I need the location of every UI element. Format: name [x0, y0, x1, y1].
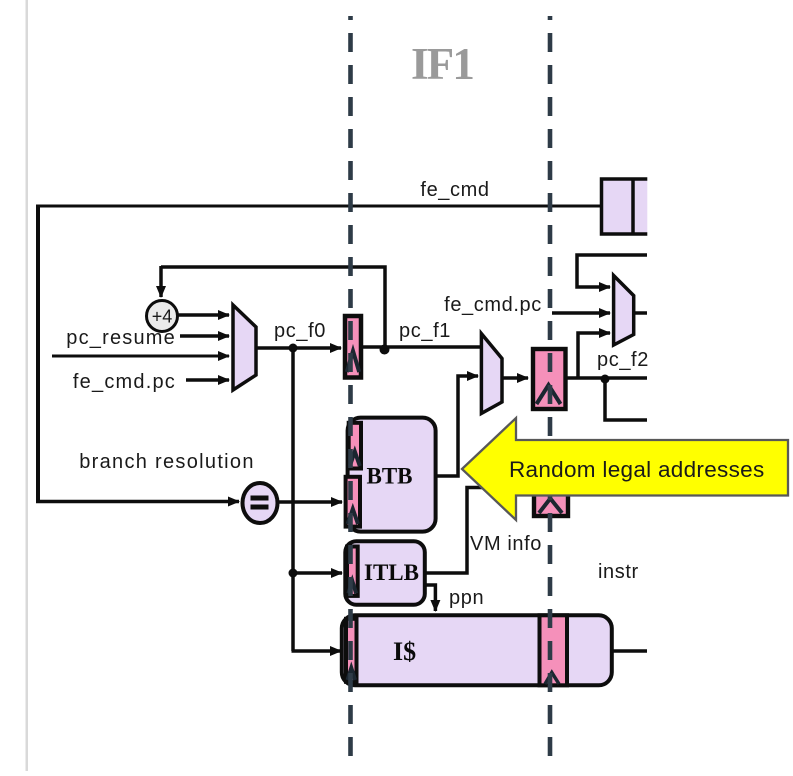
- register s2 (behind callout): [534, 460, 568, 516]
- wire into ITLB port: [293, 571, 342, 575]
- svg-text:+4: +4: [152, 307, 173, 327]
- wire +4 feedback loop from pc_f1: [161, 267, 385, 346]
- svg-text:BTB: BTB: [366, 464, 412, 489]
- wire third mux input: [52, 355, 229, 358]
- node pc_f2 junction: [601, 375, 610, 384]
- register inside I$ (stage boundary): [540, 615, 568, 685]
- svg-text:ITLB: ITLB: [364, 560, 419, 585]
- wire pc_resume to mux: [180, 334, 229, 338]
- wire fe_cmd.pc into mux f2: [552, 311, 610, 315]
- wire branch up into mux f2 bottom input: [578, 333, 610, 378]
- svg-text:pc_f2: pc_f2: [597, 349, 649, 371]
- wire pc_f0 output into register: [256, 346, 341, 350]
- stage dashed line right: [548, 16, 553, 760]
- wire left vertical (fe_cmd down to branch resolution): [36, 205, 40, 502]
- BTB block: [348, 418, 436, 532]
- svg-text:fe_cmd.pc: fe_cmd.pc: [444, 294, 542, 316]
- wire mux f2 output: [634, 311, 647, 315]
- mux pc_f0: [233, 305, 256, 390]
- mux f2: [614, 276, 634, 346]
- svg-text:instr: instr: [598, 561, 639, 583]
- wire branch resolution into comparator: [36, 500, 239, 504]
- adder +4 circle: [147, 301, 178, 332]
- register pc_f0 flip-flop: [345, 316, 361, 378]
- svg-text:fe_cmd.pc: fe_cmd.pc: [73, 371, 176, 393]
- mux f1: [481, 334, 502, 414]
- svg-text:VM info: VM info: [470, 533, 542, 555]
- callout arrow Random legal addresses: [462, 418, 788, 520]
- fe_cmd queue block (clipped at image edge): [602, 175, 658, 238]
- comparator = circle: [243, 483, 278, 523]
- svg-text:Random legal addresses: Random legal addresses: [509, 457, 765, 482]
- svg-text:pc_resume: pc_resume: [66, 327, 176, 349]
- wire into I$ port: [292, 649, 342, 653]
- wire ITLB output (VM info) up to s2 register: [424, 488, 533, 574]
- wire pc_f2 down branch to the right: [605, 379, 647, 420]
- node pc_f0 junction: [289, 344, 298, 353]
- svg-text:ppn: ppn: [449, 587, 484, 609]
- wire ppn from ITLB into I$: [424, 585, 435, 611]
- wire BTB output up to mux f1: [435, 376, 478, 476]
- wire pc_f1 to mux: [363, 345, 482, 349]
- register pc_f1 flip-flop: [533, 349, 566, 409]
- wire arrow down into +4: [159, 266, 163, 297]
- wire comparator output to BTB update port: [278, 500, 342, 504]
- wire pc_f2 run: [567, 376, 647, 380]
- register BTB update port: [346, 477, 360, 527]
- wire +4 to mux: [178, 313, 229, 317]
- left page divider line: [26, 0, 29, 771]
- svg-text:branch resolution: branch resolution: [79, 451, 255, 473]
- wire I$ output instr: [612, 649, 647, 653]
- svg-text:IF1: IF1: [411, 39, 473, 89]
- wire fe_cmd.pc to mux: [186, 378, 229, 382]
- node junction at ITLB branch: [289, 569, 298, 578]
- svg-text:pc_f1: pc_f1: [399, 320, 451, 342]
- svg-text:fe_cmd: fe_cmd: [420, 179, 489, 201]
- ITLB block: [345, 541, 425, 605]
- register I$ input port: [346, 619, 357, 682]
- svg-text:pc_f0: pc_f0: [274, 320, 326, 342]
- wire mux f1 output into register f1: [502, 376, 528, 380]
- stage dashed line left: [348, 16, 353, 760]
- svg-text:I$: I$: [393, 637, 416, 666]
- wire mux f2 top feedback: [577, 255, 647, 287]
- node junction on pc_f1 wire: [380, 345, 390, 355]
- register ITLB port: [347, 547, 358, 596]
- register BTB read port: [349, 423, 361, 469]
- wire fe_cmd (top horizontal): [38, 205, 601, 208]
- I$ block: [342, 615, 612, 685]
- wire pc_f0 vertical bus down to I$: [291, 348, 295, 651]
